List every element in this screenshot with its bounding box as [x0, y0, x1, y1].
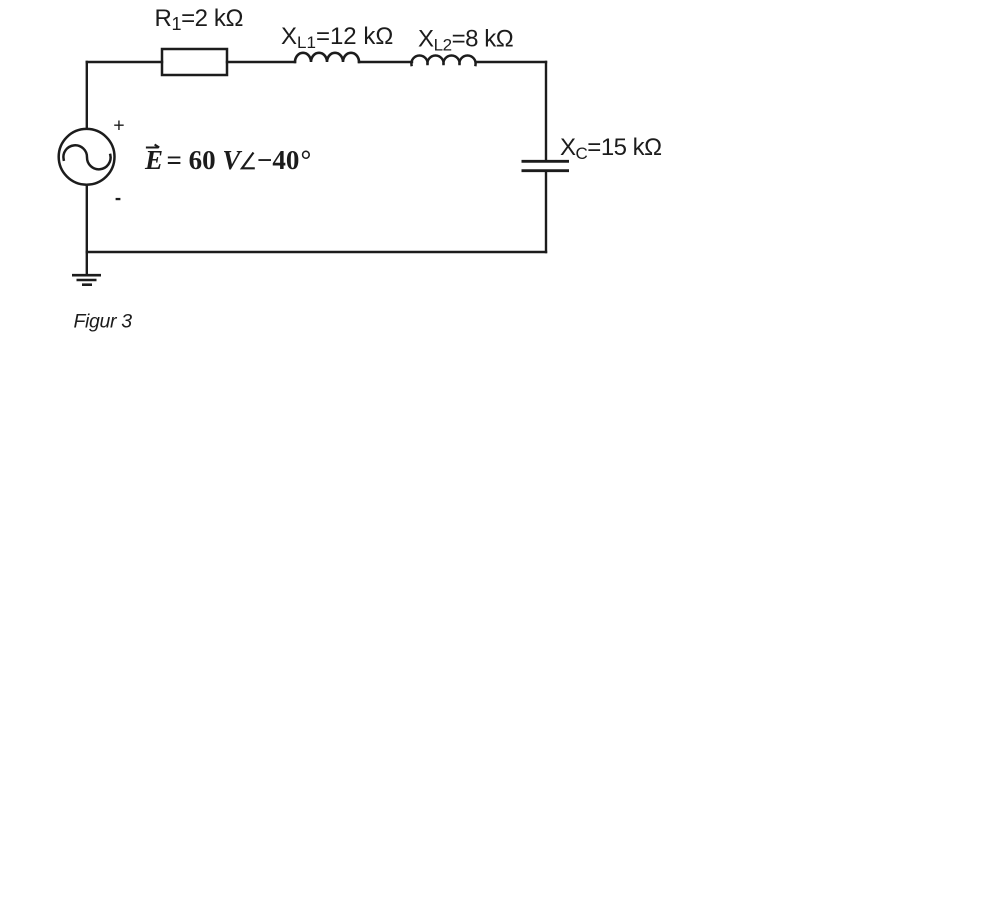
source polarity minus [116, 198, 121, 200]
svg-text:+: + [113, 115, 124, 137]
wire resistor to L1 [227, 61, 295, 63]
inductor XL2 [411, 55, 475, 65]
wire right vertical upper [545, 62, 547, 161]
wire top-left horizontal [87, 61, 162, 63]
wire left vertical lower to ground [86, 186, 88, 276]
capacitor XC top plate [522, 160, 570, 163]
wire L1 to L2 [359, 61, 412, 63]
resistor R1 [162, 49, 227, 75]
svg-text:R1=2 kΩ: R1=2 kΩ [155, 5, 244, 34]
wire bottom horizontal [87, 251, 546, 253]
svg-text:= 60 V: = 60 V [167, 145, 243, 175]
svg-text:XL2=8 kΩ: XL2=8 kΩ [418, 26, 513, 55]
AC source sine wave [63, 145, 110, 169]
svg-text:Figur 3: Figur 3 [74, 311, 133, 333]
svg-text:−40°: −40° [257, 145, 310, 175]
ground bar 1 [72, 274, 101, 277]
capacitor XC bottom plate [522, 169, 570, 172]
inductor XL1 [295, 53, 359, 62]
wire right vertical lower [545, 171, 547, 252]
wire L2 to right corner [476, 61, 546, 63]
angle symbol [242, 153, 255, 169]
svg-text:XC=15 kΩ: XC=15 kΩ [560, 134, 662, 163]
svg-text:XL1=12 kΩ: XL1=12 kΩ [281, 23, 393, 52]
source label E vector arrow [146, 145, 159, 148]
svg-text:E: E [144, 145, 163, 175]
AC source circle [59, 129, 115, 185]
ground bar 3 [82, 283, 92, 286]
wire left vertical upper [86, 62, 88, 129]
ground bar 2 [77, 279, 97, 282]
